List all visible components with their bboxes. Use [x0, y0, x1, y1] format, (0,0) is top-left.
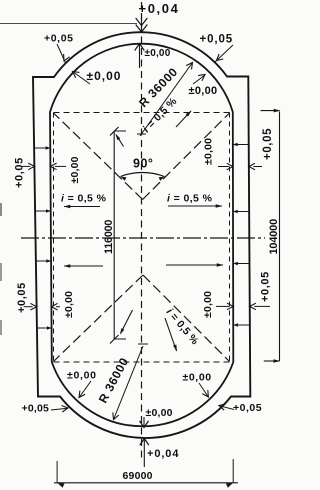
svg-text:+0,05: +0,05	[22, 403, 50, 415]
svg-text:116000: 116000	[103, 220, 115, 254]
svg-text:±0,00: ±0,00	[87, 69, 122, 83]
svg-text:±0,00: ±0,00	[203, 138, 215, 165]
svg-text:±0,00: ±0,00	[145, 48, 171, 59]
svg-text:+0,05: +0,05	[233, 402, 262, 414]
svg-text:±0,00: ±0,00	[63, 291, 75, 318]
svg-text:90°: 90°	[133, 157, 153, 171]
svg-text:±0,00: ±0,00	[183, 372, 212, 384]
svg-text:+0,05: +0,05	[14, 157, 26, 188]
svg-text:+0,04: +0,04	[139, 1, 180, 16]
svg-text:104000: 104000	[268, 219, 280, 255]
svg-text:69000: 69000	[123, 470, 153, 482]
svg-text:+0,05: +0,05	[200, 34, 234, 46]
svg-text:±0,00: ±0,00	[189, 85, 218, 97]
svg-text:+0,05: +0,05	[260, 271, 272, 302]
svg-text:+0,04: +0,04	[147, 448, 179, 460]
svg-text:i = 0,5 %: i = 0,5 %	[167, 193, 213, 205]
svg-text:±0,00: ±0,00	[67, 370, 97, 382]
svg-text:+0,05: +0,05	[16, 282, 28, 313]
svg-text:i = 0,5 %: i = 0,5 %	[61, 193, 107, 205]
svg-text:±0,00: ±0,00	[202, 291, 214, 318]
svg-text:+0,05: +0,05	[44, 33, 74, 45]
svg-text:+0,05: +0,05	[262, 128, 274, 160]
svg-text:±0,00: ±0,00	[146, 407, 173, 419]
svg-text:±0,00: ±0,00	[69, 156, 81, 183]
